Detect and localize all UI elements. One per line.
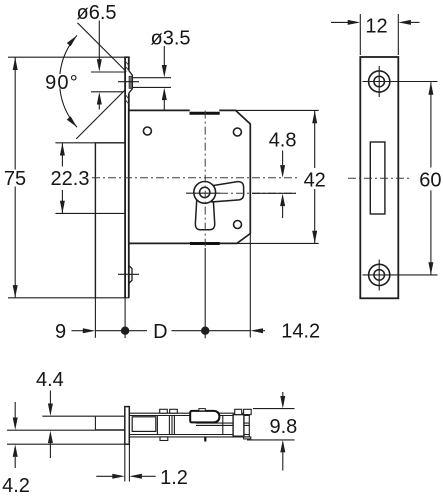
extension line faceplate front: [124, 298, 126, 338]
plan right section vertical: [222, 416, 224, 435]
faceplate edge view right line (broken at countersink): [128, 57, 130, 298]
keyhole centre extension to datum row: [204, 248, 206, 338]
angle arc lower segment: [60, 89, 77, 128]
extension line left: [124, 444, 126, 481]
extension line key guide left edge: [94, 298, 96, 338]
arrow 14.2: [251, 328, 264, 333]
case plan top inner: [130, 415, 250, 417]
countersink flare top hole: [129, 71, 133, 94]
extension line lower: [132, 86, 171, 88]
svg-text:9: 9: [55, 321, 66, 343]
case plan top outer: [130, 412, 250, 414]
key bit lever right: [212, 182, 244, 202]
dimension line 22.3: [61, 143, 63, 214]
plan nut lever block: [190, 411, 219, 423]
extension line top: [55, 142, 95, 144]
keyhole outer circle: [194, 182, 216, 204]
top screw hole outer: [369, 71, 390, 92]
dimension line 4.8: [282, 151, 284, 166]
countersink hole section gray bar: [129, 76, 132, 88]
faceplate centreline: [348, 177, 410, 179]
leader line from label: [163, 46, 165, 65]
extension of keyhole centreline handled above: [252, 192, 296, 194]
top mounting tab (thick): [190, 112, 220, 115]
arrow right: [129, 474, 142, 479]
extension line bottom: [55, 212, 124, 214]
svg-text:42: 42: [304, 170, 326, 192]
key guide divider: [94, 416, 96, 430]
extension line bottom: [8, 297, 129, 299]
top edge notch erase: [190, 109, 220, 112]
top screw hole inner: [374, 76, 385, 87]
extension line top: [236, 109, 319, 111]
bottom screw hole inner: [374, 270, 385, 281]
extension line upper: [132, 77, 171, 79]
plan tab bottom: [160, 437, 168, 441]
svg-text:9.8: 9.8: [269, 416, 297, 438]
case plan bottom inner: [130, 434, 250, 436]
keyhole vertical centreline: [204, 111, 206, 248]
extension line top: [253, 408, 295, 410]
top hole vertical tick: [378, 66, 380, 97]
row line D to keyhole: [172, 330, 251, 332]
bolt slot: [370, 142, 385, 214]
faceplate plan: [125, 407, 130, 445]
plan key shaft top tab: [235, 409, 242, 414]
faceplate edge view left line: [124, 57, 126, 298]
countersink 45deg line lower: [76, 90, 125, 139]
case hole top-left: [143, 127, 151, 135]
plan inner verticals: [157, 416, 174, 435]
extension line case right: [249, 234, 251, 338]
svg-text:22.3: 22.3: [51, 168, 90, 190]
extension line left: [359, 14, 361, 55]
key shaft long bar top line: [7, 429, 125, 431]
case hole bottom-right: [234, 221, 242, 229]
keyhole horizontal centreline: [186, 192, 220, 194]
bottom screw hole outer: [369, 264, 390, 285]
horizontal centreline of case: [92, 177, 297, 179]
centre tick of top hole: [118, 81, 139, 83]
dimension line 60: [430, 82, 432, 275]
datum dot keyhole: [201, 327, 209, 335]
svg-text:ø3.5: ø3.5: [150, 27, 190, 49]
leader 4.4: [49, 391, 51, 404]
plan lever top tab: [199, 409, 205, 411]
row line 9 to D: [95, 330, 147, 332]
dimension line 75: [14, 57, 16, 298]
plan centre tick: [204, 438, 206, 442]
lock case outline: [129, 110, 251, 243]
svg-text:D: D: [153, 321, 167, 343]
svg-text:4.8: 4.8: [269, 130, 297, 152]
datum dot faceplate: [121, 327, 129, 335]
extension line upper: [91, 71, 125, 73]
extension line lower: [91, 91, 123, 93]
arrow 9: [72, 330, 84, 332]
bottom mounting tab (thick): [190, 242, 220, 245]
svg-text:1.2: 1.2: [160, 467, 188, 489]
case plan bottom outer: [130, 436, 250, 438]
plate hatching near countersink: [125, 61, 129, 104]
plan inner box near plate: [132, 417, 156, 432]
arrow right: [398, 20, 411, 25]
dimension line 42: [314, 111, 316, 244]
extension line bottom: [237, 242, 319, 244]
svg-text:60: 60: [419, 169, 441, 191]
arrow left: [96, 475, 112, 477]
plan key shaft block: [233, 415, 244, 437]
plan tab 2: [170, 409, 178, 413]
case hole top-right: [233, 128, 241, 136]
svg-text:90°: 90°: [45, 72, 79, 94]
svg-text:75: 75: [4, 168, 26, 190]
extension line top: [8, 56, 125, 58]
svg-text:4.4: 4.4: [36, 369, 64, 391]
keyhole inner circle: [200, 187, 210, 197]
plan tab 1: [160, 409, 168, 413]
plan tab right-top: [244, 409, 252, 414]
centre tick of lower hole: [118, 273, 139, 275]
plan right section horizontals: [196, 423, 249, 425]
extension line bottom: [247, 439, 295, 441]
extension line right: [128, 444, 130, 481]
key guide bottom line: [95, 429, 124, 431]
arrow left: [331, 21, 348, 23]
top hole horizontal tick + 60 extension: [363, 81, 438, 83]
key shaft below keyhole: [195, 199, 214, 230]
bottom hole vertical tick: [378, 260, 380, 291]
case plan right cap: [248, 413, 250, 437]
lower countersink bump: [129, 266, 132, 284]
key guide housing rectangle: [95, 143, 124, 298]
faceplate top cap: [124, 56, 130, 58]
svg-text:4.2: 4.2: [2, 475, 30, 497]
key shaft long bar bottom line: [7, 443, 125, 445]
leader line from label: [98, 21, 100, 60]
extension line right: [397, 14, 399, 55]
svg-text:ø6.5: ø6.5: [76, 2, 116, 24]
svg-text:14.2: 14.2: [281, 321, 320, 343]
countersink 45deg line upper: [78, 23, 127, 72]
faceplate front outline: [360, 57, 398, 298]
key guide upper line: [42, 415, 125, 417]
bottom hole horizontal tick + 60 extension: [363, 274, 438, 276]
svg-text:12: 12: [365, 15, 387, 37]
angle arc upper segment: [60, 35, 77, 74]
plan tab bottom-right: [244, 437, 251, 439]
